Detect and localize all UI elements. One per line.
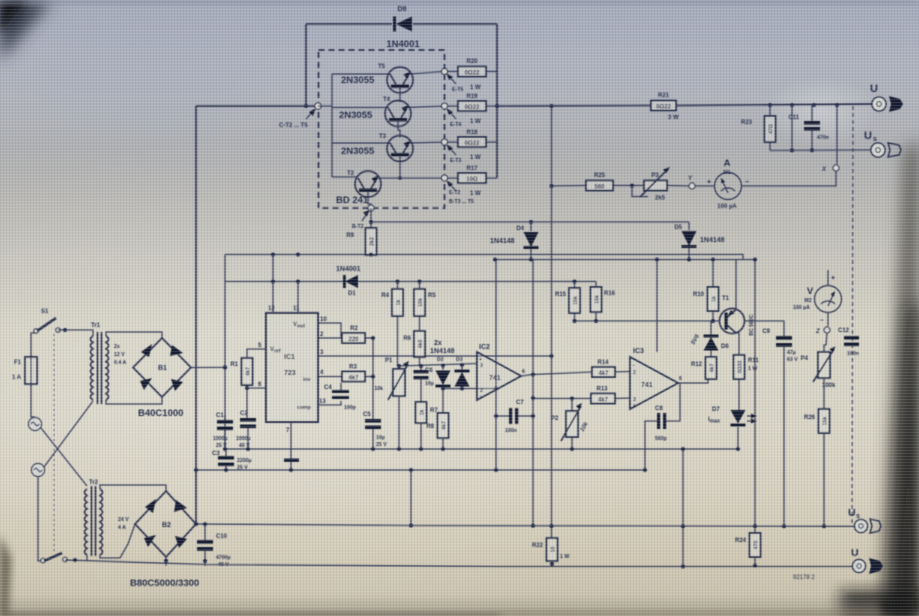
resistor R2 220 [342, 326, 373, 343]
IC1 723 regulator [258, 306, 327, 434]
terminal Us (sense -) [848, 507, 868, 533]
capacitor C4 100p [318, 383, 356, 411]
diode D5 1N4148 [674, 222, 724, 260]
resistor R7 [416, 402, 439, 449]
transformer Tr1 [91, 323, 127, 404]
capacitor C1 1000u 25V [213, 413, 233, 449]
capacitor C3 2200u 25V [212, 449, 252, 471]
bottom ground rail [65, 560, 852, 567]
LED D7 Imax [708, 407, 757, 449]
trimpot P2 (current set) [551, 399, 590, 450]
transistor T4 2N3055 [339, 97, 411, 127]
wire: base chain T5-T4 [399, 88, 401, 102]
terminal Y [688, 176, 695, 189]
transformer Tr2 [85, 480, 130, 556]
junction [304, 104, 308, 108]
wire: switch node to Tr1 [58, 330, 93, 336]
wire: T2 emitter row to node R17 [377, 177, 444, 179]
resistor R14 4k7 [592, 360, 630, 377]
vertical link left of C7 [495, 260, 497, 471]
diode D3 [455, 357, 470, 389]
transistor T2 BD241 [336, 171, 381, 206]
wire: shunt sense row [552, 185, 587, 188]
mechanical link S1 (dashed) [53, 334, 55, 554]
diode D4 1N4148 [490, 222, 539, 260]
rail: V+ box top [225, 255, 743, 260]
vertical bus at R2/R3 right [372, 338, 374, 419]
mains terminal N [32, 464, 45, 477]
rail: auxiliary supply mid rail [495, 259, 755, 261]
terminal X [821, 165, 839, 173]
resistor R1 [230, 358, 252, 385]
wire: phase slants to Tr2 primary [41, 428, 87, 486]
switch S1 (upper pole) [34, 309, 60, 333]
capacitor C8 [645, 383, 680, 470]
wire: R25 to P3 [613, 185, 644, 187]
pin 3 wire [318, 355, 552, 357]
capacitor C9 47u 63V [762, 329, 798, 527]
ground rail upper [225, 448, 738, 450]
rail: driver base to diodes [371, 221, 689, 223]
voltmeter M2 [793, 270, 842, 326]
emitter nodes on dashed edge [442, 69, 448, 75]
switch S1 lower pole [41, 553, 67, 563]
wire: Tr1 secondary to B1 [106, 332, 162, 338]
pin 6 wire from R1 bottom [247, 385, 266, 388]
diode D1 1N4001 [336, 266, 361, 297]
wire: T4 emitter to node [407, 106, 444, 108]
wire: P2 row [533, 398, 591, 400]
wire: collector stub bus inside box [318, 74, 332, 177]
wire: N down to lower switch [38, 477, 42, 562]
wire: collector rail into dashed box [196, 105, 318, 107]
resistor R5 [414, 282, 436, 332]
potentiometer P1 (voltage set) [374, 358, 409, 449]
diode D2 [436, 357, 451, 389]
wire: left drop from top rail [305, 24, 307, 106]
wire: emitter bus right side [496, 24, 498, 178]
capacitor C11 [788, 105, 829, 151]
rail: Vc rail with D1 [225, 281, 344, 283]
pin 5 wire to R1 [247, 349, 266, 358]
pin 11 wire [297, 282, 299, 314]
wire: R9 bottom to V+ rail [370, 254, 372, 257]
resistor R22 1W [532, 538, 569, 566]
pin 7 wire down with ground bar [290, 422, 292, 470]
wire: X drop from top rail [836, 105, 838, 164]
zener D6 [691, 319, 730, 357]
wire: base chain T3 down to T2 emitter row [399, 157, 401, 179]
dark vignette corners/edges [0, 0, 52, 60]
resistor R10 [693, 260, 719, 322]
pin 10 + pin 2 wires to R2 [318, 323, 341, 338]
resistor R16 [591, 282, 616, 322]
resistor R6 [403, 331, 425, 366]
wire: sense rail to Us [770, 149, 871, 152]
wire: T3 emitter to node [409, 142, 444, 143]
resistor R9 [346, 208, 376, 255]
plug symbol at Us [888, 143, 901, 157]
wire: R21 to output terminal U [676, 104, 872, 106]
wire: drop at x680 [682, 449, 684, 567]
transistor T1 BC560C [720, 260, 756, 336]
resistor R11 0R33 1W [734, 333, 760, 410]
terminal Z [815, 327, 830, 335]
dashed sense line [852, 106, 853, 526]
wire: IC3 output to R12 [678, 379, 708, 383]
wire: T5 emitter to node [409, 72, 444, 75]
capacitor C5 10u 25V [363, 412, 387, 449]
wire: IC2 output to R14 [521, 372, 592, 376]
wire: drop from top rail [791, 105, 793, 150]
node labels E-T5..E-T2 with arrows [447, 74, 464, 94]
wire: reference row [399, 364, 477, 367]
wire: Tr1 primary bottom slants to N [44, 401, 93, 467]
emitter resistor R18 0R22 [448, 130, 498, 161]
wire: top rail to D8 [306, 23, 392, 25]
vertical link right of C7 [532, 260, 534, 528]
terminal U (output +) [870, 83, 886, 111]
resistor R15 [555, 282, 580, 322]
pin 12 wire [272, 255, 274, 314]
wire: R1 bottom down to C2 [246, 388, 248, 418]
wire: Tr2 secondary to B2 [100, 485, 166, 491]
wire: D8 to right corner [413, 23, 497, 25]
wire: sense row to T1 base / C9 [575, 320, 721, 322]
wire: Tr2 primary bottom to rail [86, 555, 88, 560]
wire: P3 to Y [667, 185, 689, 188]
wire: base chain T4-T3 [398, 122, 400, 138]
heatsink outline (dashed) [319, 50, 445, 208]
resistor R23 47R [741, 105, 776, 151]
resistor R8 4k7 [426, 413, 448, 449]
emitter resistor R19 0R22 [448, 94, 498, 125]
diode D8 1N4001 [386, 6, 420, 50]
resistor R12 [691, 357, 717, 379]
potentiometer P4 100k [801, 333, 836, 409]
plug symbol at U [889, 96, 903, 112]
base resistor R17 10R [448, 166, 498, 197]
vertical from ground rail to raw rail [410, 470, 412, 526]
capacitor C7 100n feedback [494, 400, 535, 434]
resistor R21 0R22 3W shunt [497, 93, 679, 121]
wire: B2 bottom to ground rail [165, 557, 167, 566]
wire: T2 base to dashed-box node [368, 192, 371, 208]
bridge rectifier B1 B40C1000 [133, 338, 191, 419]
resistor R24 [735, 526, 761, 566]
emitter resistor R20 0R22 [448, 59, 498, 91]
wire: collector bus down left side [195, 106, 197, 524]
vertical aux drop to bottom [754, 260, 756, 528]
wire: Y to ammeter [695, 185, 715, 187]
wire: D2 bottom to R8 [442, 389, 444, 414]
op-amp IC2 741 [477, 344, 525, 400]
capacitor C2 1000u 40V [236, 411, 256, 449]
wire: aux drop to IC3 [656, 260, 658, 353]
wire: ammeter negative to X [742, 171, 836, 186]
trimpot P3 [632, 167, 670, 202]
long vertical from R21 junction down to R22 [551, 106, 553, 538]
wire: B1 + output to bus [191, 366, 225, 368]
resistor R25 [586, 173, 613, 191]
pin 4 wire to R3 [318, 376, 342, 378]
ammeter M1 [707, 158, 749, 210]
transistor T3 2N3055 [341, 134, 413, 162]
mains terminal L [29, 384, 42, 431]
resistor R3 4k7 [342, 365, 373, 382]
terminal U (output -) [851, 547, 866, 573]
bus: B1 + supply vertical [224, 255, 226, 450]
capacitor C10 4700u 40V [197, 524, 231, 568]
wire: inverting row [443, 388, 496, 390]
resistor R4 [381, 282, 403, 367]
raw supply rail to lower Us [411, 525, 854, 528]
capacitor C6 [414, 366, 434, 402]
resistor R26 [804, 409, 830, 527]
resistor R13 4k7 [591, 387, 630, 404]
node C-T2...T5 [315, 103, 321, 109]
wire: B2 + to collector bus and raw rail [196, 524, 411, 526]
op-amp IC3 741 [630, 348, 682, 409]
terminal Us (sense +) [864, 130, 885, 157]
fuse F1 1A [12, 333, 37, 386]
bridge rectifier B2 [130, 491, 199, 589]
ground rail lower [196, 469, 645, 471]
capacitor C12 100n [838, 328, 859, 357]
transistor T5 2N3055 [341, 64, 413, 93]
